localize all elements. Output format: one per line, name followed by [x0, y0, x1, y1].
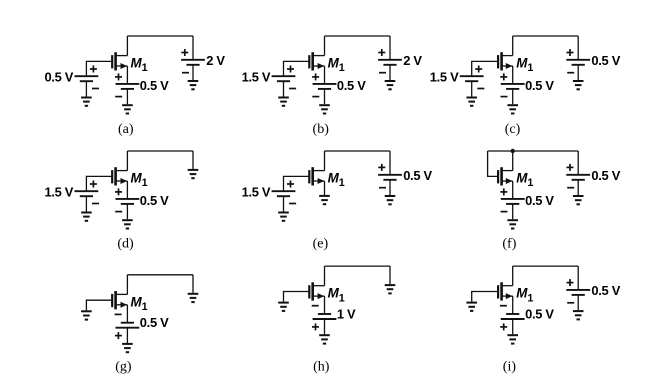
- wire: drain of M1 up to rail (f): [512, 151, 514, 171]
- wire: top rail (h): [325, 265, 391, 267]
- battery 0.5 V supply (i): [566, 279, 590, 303]
- wire: drain of M1 up to rail (c): [512, 36, 514, 56]
- svg-text:(c): (c): [505, 122, 521, 137]
- wire: rail down to supply battery (a): [192, 36, 194, 60]
- wire: rail down to supply battery (b): [389, 36, 391, 60]
- transistor M1 NMOS (a): [112, 52, 127, 70]
- battery 0.5 V source bias (a): [115, 73, 139, 96]
- ground (gate bias) (e): [278, 213, 289, 221]
- battery 0.5 V source bias (b): [312, 73, 336, 96]
- wire: source battery to ground (h): [324, 319, 326, 334]
- svg-text:0.5 V: 0.5 V: [591, 168, 620, 183]
- wire: supply battery to ground (a): [192, 65, 194, 80]
- ground (source) (d): [122, 220, 133, 228]
- wire: gate bias battery top to gate of M1 (a): [86, 61, 112, 76]
- ground (gate bias) (d): [81, 213, 92, 221]
- transistor M1 NMOS (c): [498, 52, 513, 70]
- wire: top rail (c): [513, 35, 579, 37]
- wire: top rail (i): [513, 265, 579, 267]
- svg-text:1 V: 1 V: [337, 306, 356, 321]
- svg-text:2 V: 2 V: [403, 53, 422, 68]
- wire: drain of M1 up to rail (d): [126, 151, 128, 171]
- wire: gate battery to ground (a): [85, 81, 87, 96]
- ground (source) (f): [507, 220, 518, 228]
- wire: drain of M1 up to rail (g): [126, 275, 128, 295]
- wire: gate bias battery top to gate of M1 (d): [86, 176, 112, 191]
- svg-text:1.5 V: 1.5 V: [242, 70, 271, 85]
- wire: gate of M1 to ground (g): [86, 300, 112, 310]
- ground (supply) (e): [385, 196, 396, 204]
- battery 0.5 V supply (e): [378, 164, 402, 188]
- wire: gate bias battery top to gate of M1 (b): [284, 61, 310, 76]
- svg-text:1.5 V: 1.5 V: [242, 185, 271, 200]
- wire: rail down to supply battery (f): [577, 151, 579, 175]
- wire: supply battery to ground (e): [389, 180, 391, 195]
- wire: supply battery to ground (b): [389, 65, 391, 80]
- svg-text:(i): (i): [503, 360, 517, 375]
- svg-text:2 V: 2 V: [206, 53, 225, 68]
- svg-text:(b): (b): [313, 122, 330, 137]
- ground (drain) (d): [188, 170, 199, 178]
- svg-text:(g): (g): [115, 360, 132, 375]
- wire: gate bias battery top to gate of M1 (e): [284, 176, 310, 191]
- svg-text:0.5 V: 0.5 V: [525, 78, 554, 93]
- transistor M1 NMOS (f): [498, 167, 513, 185]
- wire: gate of M1 to ground (i): [472, 292, 498, 302]
- wire: source of M1 down to battery (d): [126, 181, 128, 199]
- wire: supply battery to ground (c): [577, 65, 579, 80]
- battery 1.5 V gate bias (d): [75, 181, 100, 204]
- wire: rail down to ground (d): [192, 151, 194, 169]
- wire: gate battery to ground (d): [85, 196, 87, 211]
- ground (supply) (i): [573, 311, 584, 319]
- ground (supply) (c): [573, 81, 584, 89]
- wire: rail down to supply battery (c): [577, 36, 579, 60]
- wire: gate of M1 to ground (h): [284, 292, 310, 302]
- svg-text:0.5 V: 0.5 V: [525, 193, 554, 208]
- battery 0.5 V source bias (d): [115, 188, 139, 211]
- ground (gate bias) (b): [278, 98, 289, 106]
- ground (source) (c): [507, 105, 518, 113]
- wire: top rail (f): [488, 150, 579, 152]
- wire: top rail (b): [325, 35, 391, 37]
- wire: source battery to ground (i): [512, 319, 514, 334]
- wire: source battery to ground (g): [126, 328, 128, 343]
- ground (drain) (g): [188, 294, 199, 302]
- wire: drain of M1 up to rail (e): [324, 151, 326, 171]
- ground (source) (i): [507, 335, 518, 343]
- svg-text:0.5 V: 0.5 V: [44, 70, 73, 85]
- battery 0.5 V supply (f): [566, 164, 590, 188]
- svg-text:1.5 V: 1.5 V: [44, 185, 73, 200]
- svg-text:0.5 V: 0.5 V: [591, 53, 620, 68]
- wire: gate battery to ground (c): [471, 81, 473, 96]
- battery 2 V supply (a): [181, 49, 205, 73]
- wire: top rail (g): [127, 274, 193, 276]
- ground (source) (a): [122, 105, 133, 113]
- wire: top rail (a): [127, 35, 193, 37]
- svg-text:0.5 V: 0.5 V: [403, 168, 432, 183]
- ground (supply) (a): [188, 81, 199, 89]
- wire: source of M1 down to battery (h): [324, 296, 326, 314]
- node: gate-drain junction dot (f): [511, 149, 515, 153]
- battery 2 V supply (b): [378, 49, 402, 73]
- ground (source) (h): [319, 335, 330, 343]
- battery 1.5 V gate bias (b): [272, 66, 297, 89]
- wire: rail down to supply battery (i): [577, 266, 579, 290]
- wire: source battery to ground (a): [126, 89, 128, 104]
- wire: gate battery to ground (e): [283, 196, 285, 211]
- wire: source of M1 down to battery (a): [126, 66, 128, 84]
- wire: source of M1 to ground (e): [324, 181, 326, 195]
- battery 0.5 V source bias (g): [115, 314, 140, 339]
- wire: source battery to ground (c): [512, 89, 514, 104]
- battery 0.5 V supply (c): [566, 49, 590, 73]
- battery 1.5 V gate bias (e): [272, 181, 297, 204]
- wire: top rail (d): [127, 150, 193, 152]
- wire: source of M1 down to battery (f): [512, 181, 514, 199]
- battery 1.5 V gate bias (c): [460, 66, 485, 89]
- svg-text:0.5 V: 0.5 V: [140, 78, 169, 93]
- transistor M1 NMOS (i): [498, 282, 513, 300]
- transistor M1 NMOS (h): [309, 282, 324, 300]
- battery 0.5 V source bias (f): [500, 188, 524, 211]
- ground (source) (b): [319, 105, 330, 113]
- svg-text:(h): (h): [313, 360, 330, 375]
- wire: drain of M1 up to rail (a): [126, 36, 128, 56]
- svg-text:0.5 V: 0.5 V: [525, 306, 554, 321]
- wire: rail down to ground (h): [389, 266, 391, 284]
- wire: source battery to ground (d): [126, 204, 128, 219]
- svg-text:0.5 V: 0.5 V: [591, 283, 620, 298]
- transistor M1 NMOS (b): [309, 52, 324, 70]
- svg-text:(a): (a): [118, 122, 134, 137]
- ground (gate) (h): [278, 303, 289, 311]
- ground (gate bias) (c): [466, 98, 477, 106]
- svg-text:0.5 V: 0.5 V: [140, 193, 169, 208]
- wire: gate battery to ground (b): [283, 81, 285, 96]
- wire: supply battery to ground (f): [577, 180, 579, 195]
- wire: source of M1 down to battery (b): [324, 66, 326, 84]
- wire: gate bias battery top to gate of M1 (c): [472, 61, 498, 76]
- svg-text:(e): (e): [313, 237, 329, 252]
- ground (supply) (b): [385, 81, 396, 89]
- svg-text:0.5 V: 0.5 V: [337, 78, 366, 93]
- ground (drain) (h): [385, 285, 396, 293]
- ground (gate) (i): [466, 303, 477, 311]
- wire: rail down to supply battery (e): [389, 151, 391, 175]
- svg-text:0.5 V: 0.5 V: [140, 315, 169, 330]
- svg-text:1.5 V: 1.5 V: [430, 70, 459, 85]
- svg-text:(d): (d): [117, 237, 134, 252]
- wire: drain of M1 up to rail (h): [324, 266, 326, 286]
- wire: source of M1 down to battery (g): [126, 305, 128, 323]
- ground (source) (g): [122, 344, 133, 352]
- transistor M1 NMOS (g): [112, 291, 127, 309]
- wire: source of M1 down to battery (c): [512, 66, 514, 84]
- wire: gate tied to drain rail (diode connection) (f): [488, 151, 499, 176]
- battery 0.5 V source bias (i): [500, 306, 525, 331]
- wire: rail down to ground (g): [192, 275, 194, 293]
- transistor M1 NMOS (e): [309, 167, 324, 185]
- ground (gate) (g): [81, 311, 92, 319]
- wire: source battery to ground (f): [512, 204, 514, 219]
- svg-text:(f): (f): [502, 237, 516, 252]
- battery 0.5 V gate bias (a): [75, 66, 100, 89]
- ground (gate bias) (a): [81, 98, 92, 106]
- wire: top rail (e): [325, 150, 391, 152]
- wire: source of M1 down to battery (i): [512, 296, 514, 314]
- ground (supply) (f): [573, 196, 584, 204]
- ground (source) (e): [319, 196, 330, 204]
- transistor M1 NMOS (d): [112, 167, 127, 185]
- wire: drain of M1 up to rail (b): [324, 36, 326, 56]
- battery 0.5 V source bias (c): [500, 73, 524, 96]
- wire: source battery to ground (b): [324, 89, 326, 104]
- battery 1 V source bias (h): [312, 306, 337, 331]
- wire: drain of M1 up to rail (i): [512, 266, 514, 286]
- wire: supply battery to ground (i): [577, 295, 579, 310]
